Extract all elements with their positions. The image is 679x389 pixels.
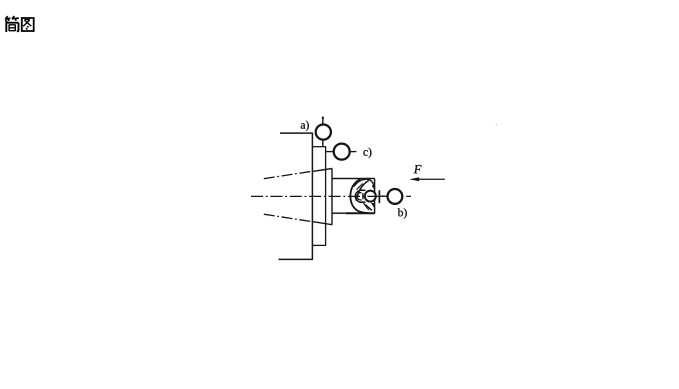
dial indicator a cap — [322, 117, 324, 119]
lower jaw tip wedge — [371, 203, 375, 209]
dial indicator a top stem — [322, 117, 324, 123]
jaw leaf upper curve — [354, 179, 375, 188]
socket cup top edge — [360, 189, 366, 191]
stray dot — [496, 124, 498, 126]
cone lower edge — [313, 222, 333, 225]
flange right edge — [325, 147, 327, 246]
socket cup outer arc — [355, 190, 363, 202]
简 inner sun — [9, 25, 15, 31]
test ball — [365, 191, 376, 202]
图 inner winter — [24, 19, 26, 21]
centerline dash-dot — [251, 195, 411, 197]
dial indicator a bottom stem — [322, 141, 324, 147]
dial indicator c — [334, 144, 350, 160]
title 简图 (drawn strokes) — [5, 16, 34, 32]
gauge b contact bar — [378, 190, 380, 203]
label a) — [301, 121, 309, 131]
简 bamboo radical — [6, 16, 8, 19]
force F arrow line — [412, 178, 445, 180]
cone upper edge — [313, 169, 333, 172]
lower jaw edge — [365, 205, 372, 211]
headstock face: top line — [280, 132, 313, 134]
chuck dome outer arc — [350, 179, 368, 213]
cone base vertical — [331, 169, 333, 225]
jaw leaf hatch — [357, 184, 363, 190]
简 door frame — [5, 21, 7, 32]
taper projection dash-dot upper — [264, 171, 313, 179]
label F — [414, 165, 422, 173]
force F arrowhead — [409, 177, 419, 181]
spindle nose block right — [374, 179, 376, 214]
socket cup bottom edge — [360, 201, 366, 203]
socket rim bar — [362, 193, 364, 199]
dial indicator b — [388, 189, 403, 204]
upper jaw tip wedge — [372, 185, 375, 189]
taper projection dash-dot lower — [264, 214, 313, 222]
图 outer box — [22, 18, 34, 31]
socket cup lower tail — [363, 202, 369, 210]
dial indicator c left stem — [326, 151, 333, 153]
spindle nose block top — [332, 178, 375, 180]
label c) — [363, 148, 371, 158]
jaw leaf lower curve — [356, 180, 369, 201]
flange top tick — [312, 146, 326, 148]
gauge b stem — [379, 195, 386, 197]
socket cup inner arc — [357, 193, 362, 200]
dial indicator c right stem — [351, 151, 357, 153]
headstock face: bottom line — [279, 258, 314, 260]
spindle nose block bottom — [332, 212, 346, 214]
flange bottom tick — [312, 244, 326, 246]
dial indicator a — [316, 125, 331, 140]
headstock face: right edge vertical — [311, 133, 313, 259]
label b) — [398, 208, 407, 218]
